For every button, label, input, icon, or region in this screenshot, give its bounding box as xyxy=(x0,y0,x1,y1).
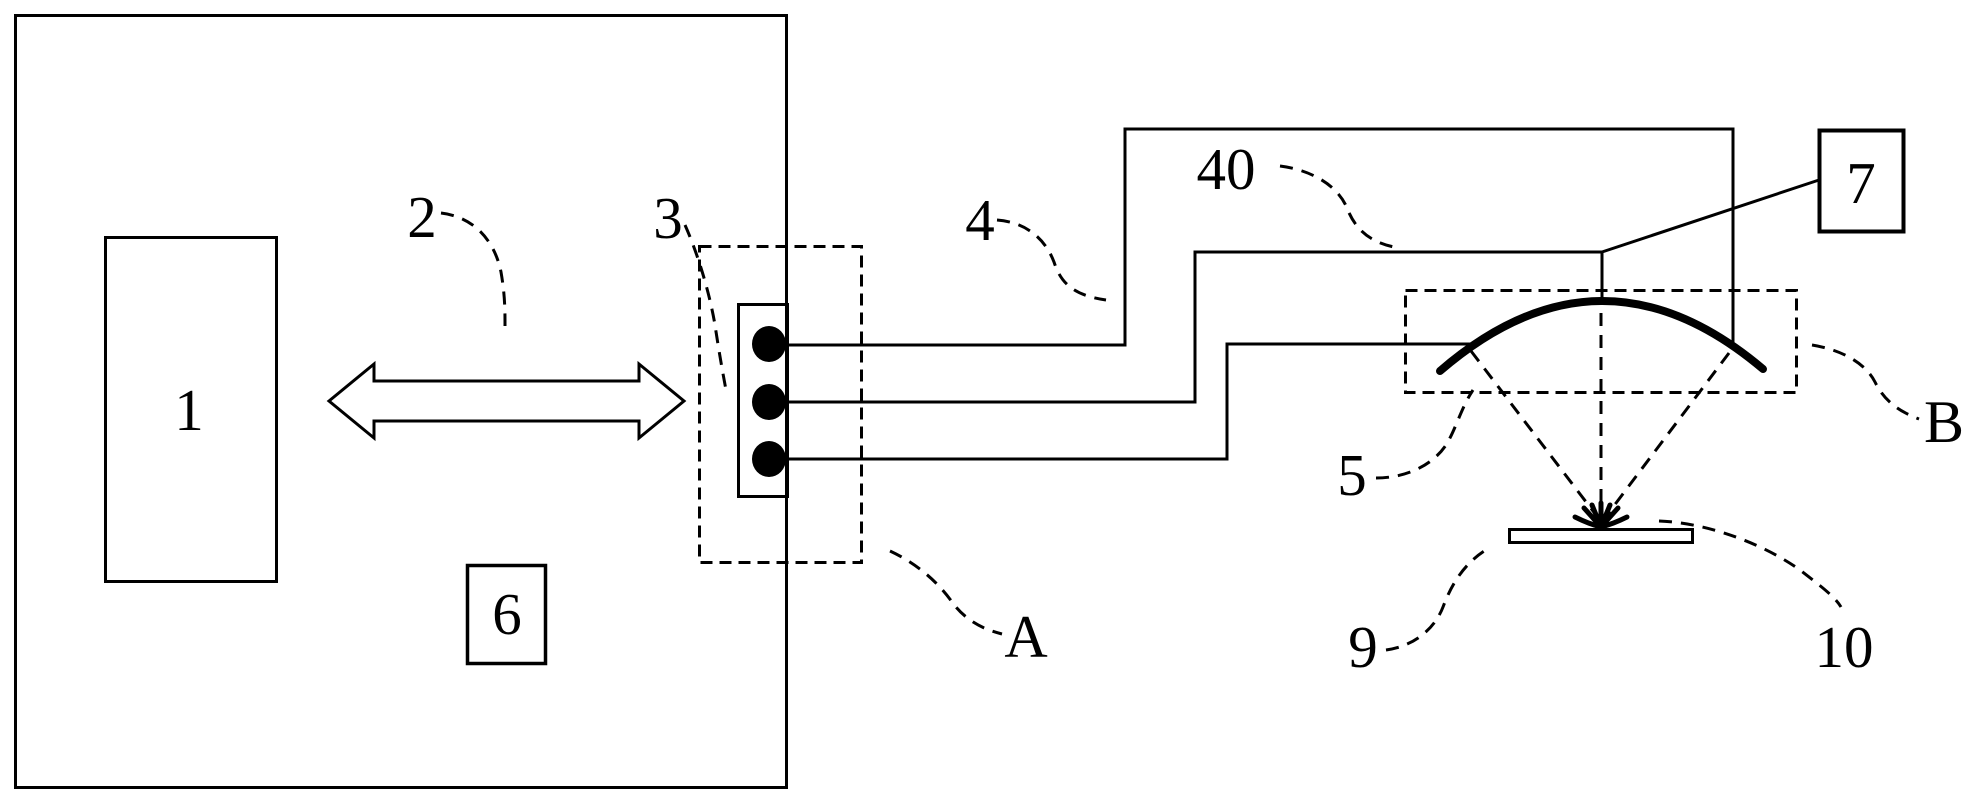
svg-text:5: 5 xyxy=(1337,442,1367,508)
connector pin dot 1 xyxy=(752,326,786,362)
concave mirror 5 xyxy=(1440,301,1763,371)
leader 9 xyxy=(1386,548,1489,650)
leader 3 xyxy=(685,225,727,395)
double arrow 2 xyxy=(329,364,684,438)
focal starburst arrow xyxy=(1575,503,1627,527)
box 6 xyxy=(468,566,546,664)
dashed ray center xyxy=(1600,313,1603,506)
wire junction drop to mirror apex xyxy=(1601,252,1604,303)
svg-text:9: 9 xyxy=(1348,614,1378,680)
wire 40 (middle, pin2 to node 7) xyxy=(787,252,1602,402)
leader 4 xyxy=(997,220,1106,300)
box 1 xyxy=(106,238,277,582)
svg-text:A: A xyxy=(1004,604,1047,670)
svg-text:3: 3 xyxy=(653,185,683,251)
leader 2 xyxy=(441,213,505,326)
box 7 xyxy=(1820,131,1904,232)
sample 9 xyxy=(1510,530,1693,543)
wire (bottom, pin3 to mirror left) xyxy=(787,344,1470,459)
dashed ray right xyxy=(1607,353,1729,515)
leader A xyxy=(890,551,1002,634)
leader 10 xyxy=(1659,521,1841,607)
svg-text:40: 40 xyxy=(1197,136,1256,202)
svg-text:10: 10 xyxy=(1815,614,1874,680)
dashed box B (mirror region) xyxy=(1406,291,1797,393)
svg-text:4: 4 xyxy=(965,187,995,253)
svg-text:2: 2 xyxy=(407,184,437,250)
connector body 3 xyxy=(739,305,788,497)
svg-text:1: 1 xyxy=(174,377,204,443)
leader 5 xyxy=(1376,390,1473,478)
connector pin dot 3 xyxy=(752,441,786,477)
svg-text:6: 6 xyxy=(492,581,522,647)
leader 40 xyxy=(1280,166,1394,247)
wire junction to box 7 (diagonal) xyxy=(1602,180,1819,252)
svg-text:7: 7 xyxy=(1846,150,1876,216)
outer enclosure box xyxy=(16,16,787,788)
wire 4 (top, pin1 to mirror right) xyxy=(787,129,1733,345)
connector pin dot 2 xyxy=(752,384,786,420)
svg-text:B: B xyxy=(1924,389,1964,455)
leader B xyxy=(1812,345,1919,419)
dashed ray left xyxy=(1471,351,1596,515)
dashed box A (connector region) xyxy=(700,247,862,563)
